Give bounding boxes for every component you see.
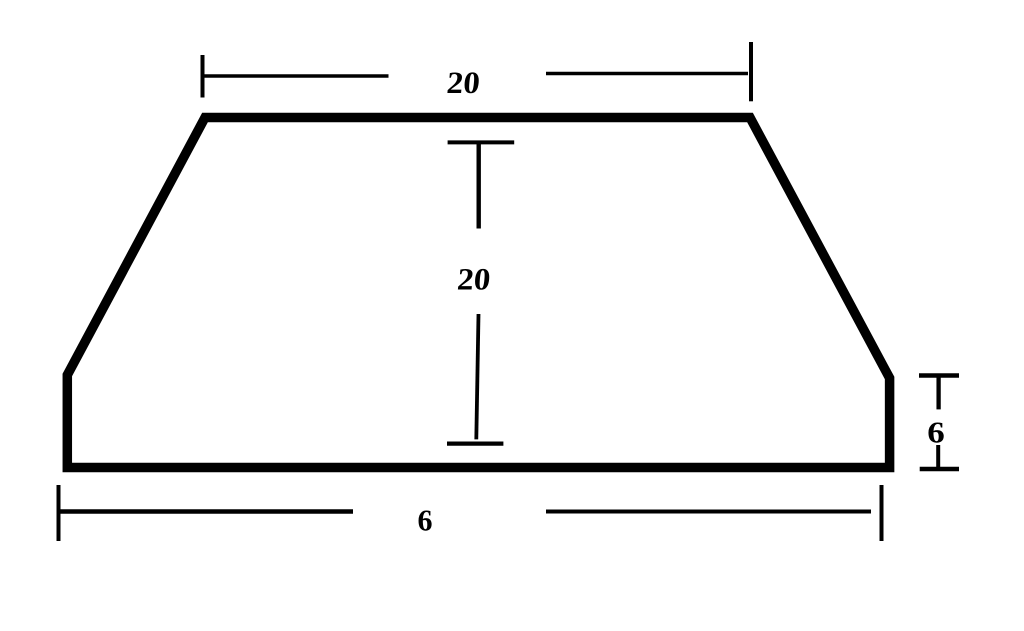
svg-text:6: 6 xyxy=(927,415,945,450)
right dimension bottom tick xyxy=(920,467,959,472)
right dimension lower stem xyxy=(936,445,940,467)
middle dimension lower stem xyxy=(476,314,478,439)
top dimension right segment xyxy=(546,72,748,76)
middle dimension bottom tick xyxy=(447,441,503,445)
svg-text:20: 20 xyxy=(445,65,481,100)
top dimension left tick xyxy=(201,55,205,98)
middle dimension upper stem xyxy=(477,144,481,229)
right dimension upper stem xyxy=(936,377,940,409)
svg-text:6: 6 xyxy=(418,503,433,538)
bottom dimension left tick xyxy=(57,485,61,541)
svg-text:20: 20 xyxy=(456,262,492,297)
middle dimension top tick xyxy=(448,140,515,144)
top dimension right tick xyxy=(749,42,753,101)
trapezoid outline xyxy=(67,118,889,468)
top dimension left segment xyxy=(203,74,389,78)
bottom dimension right segment xyxy=(546,510,871,514)
right dimension top tick xyxy=(919,373,959,378)
bottom dimension right tick xyxy=(880,485,884,541)
bottom dimension left segment xyxy=(59,509,353,514)
